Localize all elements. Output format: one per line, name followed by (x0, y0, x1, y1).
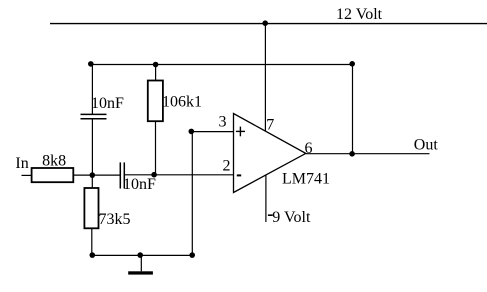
svg-text:3: 3 (219, 114, 227, 131)
label: -9 Volt (268, 209, 311, 226)
op-amp U1 LM741 (triangle) (234, 114, 306, 193)
pin number 6 (305, 140, 313, 157)
resistor R3 73k5 (body) (84, 188, 98, 228)
wire: pin-3 ground column (191, 132, 193, 256)
wire: R2 106k1 bottom lead (155, 121, 157, 175)
svg-text:12 Volt: 12 Volt (336, 6, 383, 23)
svg-text:73k5: 73k5 (99, 211, 131, 228)
wire: feedback column (352, 64, 354, 154)
svg-text:LM741: LM741 (282, 171, 330, 188)
capacitor C1 10nF (vertical, plates) (81, 114, 107, 118)
node: junction ground rail / ground symbol (137, 252, 143, 258)
wire: R2 106k1 top lead (155, 65, 157, 81)
resistor R1 8k8 (body) (32, 168, 74, 182)
svg-text:Out: Out (414, 136, 439, 153)
wire: pin-7 supply drop to op-amp (264, 23, 266, 131)
node: junction pin-3 wire / ground column (189, 129, 195, 135)
wire: ground symbol stub (140, 255, 142, 271)
svg-text:10nF: 10nF (123, 176, 156, 193)
ground (128, 271, 153, 274)
pin number 2 (223, 158, 231, 175)
node: junction ground rail / R3 (90, 252, 96, 258)
wire: bottom ground rail (92, 254, 192, 256)
svg-text:2: 2 (223, 158, 231, 175)
svg-text:8k8: 8k8 (42, 152, 66, 169)
value label: 10nF (C1) (91, 95, 124, 112)
node: junction R1 / C1 / R3 73k5 (90, 172, 96, 178)
wire: C1 top lead (91, 64, 93, 114)
wire: R1 output to C2 left plate (73, 174, 120, 176)
svg-text:10nF: 10nF (91, 95, 124, 112)
wire: op-amp non-inverting input (pin 3) (191, 131, 233, 133)
wire: R3 73k5 top lead (91, 175, 93, 188)
wire: input terminal lead (22, 174, 32, 176)
value label: 106k1 (162, 93, 202, 110)
wire: C1 bottom lead (91, 119, 93, 175)
polarity mark: + (non-inverting) (236, 127, 245, 137)
node: junction ground rail / pin-3 column (189, 252, 195, 258)
pin number 7 (266, 117, 274, 134)
value label: 73k5 (99, 211, 131, 228)
wire: output (pin 6) (306, 153, 430, 155)
label: In (15, 155, 28, 172)
node: junction of 12V rail and pin-7 drop (262, 20, 268, 26)
resistor R2 106k1 (body) (148, 81, 163, 122)
capacitor C2 10nF (horizontal, plates) (120, 162, 124, 188)
wire: R3 73k5 bottom lead (91, 228, 93, 255)
svg-text:6: 6 (305, 140, 313, 157)
node: junction upper rail / output column (349, 61, 355, 67)
wire: upper feedback rail (91, 64, 353, 66)
part label: LM741 (282, 171, 330, 188)
svg-text:9 Volt: 9 Volt (272, 209, 311, 226)
svg-text:7: 7 (266, 117, 274, 134)
svg-text:106k1: 106k1 (162, 93, 202, 110)
node: junction output / feedback column (349, 151, 355, 157)
label: Out (414, 136, 439, 153)
node: junction upper rail / C1 top (88, 61, 94, 67)
wire: +12V top supply rail (50, 23, 487, 25)
svg-text:In: In (15, 155, 28, 172)
pin number 3 (219, 114, 227, 131)
polarity mark: - (inverting) (237, 174, 241, 176)
label: 12 Volt (336, 6, 383, 23)
value label: 10nF (C2) (123, 176, 156, 193)
value label: 8k8 (R1) (42, 152, 66, 169)
node: junction C2 / R2 bottom lead (151, 172, 157, 178)
wire: pin-4 negative supply lead (265, 175, 267, 222)
wire: C2 right plate to op-amp inverting input (pin 2) (124, 174, 233, 176)
node: junction upper rail / R2 106k1 top (153, 62, 159, 68)
